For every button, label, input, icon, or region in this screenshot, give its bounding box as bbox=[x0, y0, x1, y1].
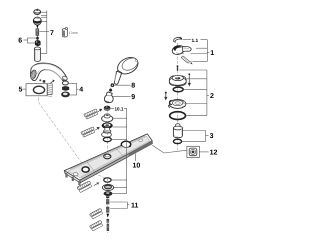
svg-text:2: 2 bbox=[210, 93, 214, 100]
leader plate to box 12 bbox=[152, 145, 187, 153]
bracket 7 bbox=[40, 11, 50, 54]
svg-text:6: 6 bbox=[18, 38, 22, 45]
bracket 6 bbox=[24, 38, 36, 43]
tiny screw above dome bbox=[177, 65, 179, 70]
stop valve cylinder 3 bbox=[173, 124, 182, 138]
aerator ring (dark) bbox=[61, 92, 70, 98]
deck plate rear rim line bbox=[70, 136, 146, 170]
leader 9 bbox=[113, 95, 131, 97]
o-ring 3 bbox=[173, 139, 181, 143]
service tool icon beside 7 bbox=[62, 28, 67, 37]
bracket 3 bbox=[206, 131, 209, 142]
leader o-ring 3 bbox=[182, 140, 206, 142]
deck plate front face bbox=[80, 141, 153, 183]
leader 10.1 bbox=[110, 107, 114, 109]
leader 5 bbox=[23, 88, 27, 90]
deck plate division 1 bbox=[86, 161, 94, 172]
clip pair A below plate bbox=[77, 181, 99, 193]
square flange 12 bbox=[189, 148, 197, 156]
lower o-ring bbox=[104, 178, 111, 182]
centerline left cartridge stack bbox=[36, 8, 38, 62]
hose collar disc 10.1 bbox=[104, 106, 110, 111]
svg-text:8: 8 bbox=[131, 83, 135, 90]
pin left of flange bbox=[165, 92, 167, 94]
small screw dot above box bbox=[43, 80, 46, 83]
bracket 11 bbox=[110, 202, 129, 209]
svg-text:1.1: 1.1 bbox=[192, 38, 199, 44]
deck plate inset line bbox=[68, 136, 151, 178]
svg-text:1: 1 bbox=[210, 50, 214, 57]
svg-text:11: 11 bbox=[131, 202, 139, 209]
svg-text:5: 5 bbox=[19, 86, 23, 93]
leader 1.1 bbox=[183, 39, 191, 41]
arrow beside dome bbox=[188, 73, 190, 75]
deck plate front face right dark part bbox=[129, 141, 153, 157]
centerline spout to plate hole bbox=[39, 98, 86, 168]
clip pair C bbox=[89, 220, 103, 231]
dome cap 2 bbox=[169, 75, 186, 86]
knob bbox=[33, 17, 41, 25]
svg-text:10: 10 bbox=[133, 163, 141, 170]
shower hose washer bbox=[111, 83, 115, 87]
base gasket oval bbox=[33, 86, 44, 93]
cartridge cylinder bbox=[35, 47, 41, 61]
clip pair B bbox=[89, 208, 103, 219]
leader 8 bbox=[114, 84, 130, 86]
screw clip upper bbox=[84, 109, 102, 120]
leader 12 bbox=[199, 151, 208, 153]
cap disc (stack top) bbox=[34, 10, 41, 15]
arrow below rod bbox=[106, 214, 109, 218]
screw clip lower bbox=[81, 127, 100, 138]
svg-text:4: 4 bbox=[79, 86, 83, 93]
o-ring 2a bbox=[173, 87, 183, 92]
centerline hole A to lower hardware bbox=[86, 170, 107, 233]
small washer 9 bbox=[109, 89, 112, 92]
small hole right bbox=[139, 139, 143, 141]
leader tiny screw bbox=[179, 69, 207, 71]
box 12 bbox=[187, 146, 200, 157]
lower flange washer bbox=[102, 185, 113, 191]
small hole left bbox=[73, 173, 78, 176]
leader 3 bbox=[183, 130, 206, 132]
threaded rod bbox=[106, 196, 109, 213]
collar hole (handshower) bbox=[104, 154, 111, 159]
hole A (spout) bbox=[82, 167, 89, 172]
escutcheon dome bbox=[102, 114, 113, 122]
escutcheon ring bbox=[102, 132, 112, 137]
bracket 2 bbox=[207, 70, 209, 116]
deck plate top face bbox=[64, 134, 152, 180]
hole C with snap ring bbox=[121, 141, 131, 147]
centerline below o-ring 3 bbox=[176, 144, 178, 151]
bracket 1 bbox=[207, 40, 209, 62]
large o-ring 2b bbox=[170, 112, 186, 120]
leader 1.1 to bracket bbox=[201, 39, 208, 41]
lever handle 1 bbox=[171, 44, 191, 56]
leader o-ring 2a bbox=[183, 88, 207, 90]
deck plate left end face bbox=[64, 171, 80, 183]
svg-text:3: 3 bbox=[210, 133, 214, 140]
centerline right valve stack bbox=[176, 43, 178, 146]
tiny pin above box bbox=[39, 79, 41, 81]
leader screw bbox=[193, 61, 208, 63]
temperature limiter 1.1 bbox=[174, 37, 183, 42]
gland flange bbox=[102, 123, 113, 134]
threaded nipple beside box bbox=[47, 80, 54, 97]
cradle cone bbox=[104, 92, 113, 103]
mounting nut bbox=[104, 191, 113, 196]
arrow stem bbox=[36, 25, 38, 29]
svg-text:10.1: 10.1 bbox=[115, 106, 124, 111]
threaded rod bbox=[36, 29, 39, 37]
escutcheon box 5 bbox=[26, 84, 47, 96]
bracket 10.1 over plate bbox=[126, 142, 128, 158]
bracket 4 bbox=[69, 83, 79, 95]
leader dome bbox=[186, 78, 207, 80]
deck plate legs bbox=[66, 173, 68, 177]
hand shower handle bbox=[114, 71, 122, 85]
svg-text:12: 12 bbox=[210, 150, 218, 157]
deck plate inner shadow band bbox=[81, 141, 150, 177]
svg-text:17mm: 17mm bbox=[69, 31, 78, 35]
spout bbox=[30, 63, 68, 81]
bracket 10.1 long bbox=[111, 108, 127, 193]
flow restrictor (dark) bbox=[62, 86, 69, 91]
cartridge nut bbox=[35, 40, 40, 45]
ball bbox=[36, 37, 39, 40]
leader flange bbox=[186, 103, 207, 105]
o-ring mid stack bbox=[103, 137, 111, 141]
mounting flange bbox=[169, 99, 186, 108]
hand shower head bbox=[115, 54, 141, 77]
leaders handle bbox=[196, 47, 207, 49]
aerator washer bbox=[63, 81, 69, 85]
handle screw hatched bbox=[181, 56, 193, 65]
rod lower segments bbox=[107, 219, 110, 231]
leader o-ring 2b bbox=[186, 115, 207, 117]
deck plate division 2 bbox=[116, 148, 124, 157]
centerline handshower stack bbox=[107, 83, 112, 153]
svg-text:9: 9 bbox=[131, 94, 135, 101]
leader 10 bbox=[135, 154, 137, 162]
svg-text:7: 7 bbox=[50, 30, 54, 37]
